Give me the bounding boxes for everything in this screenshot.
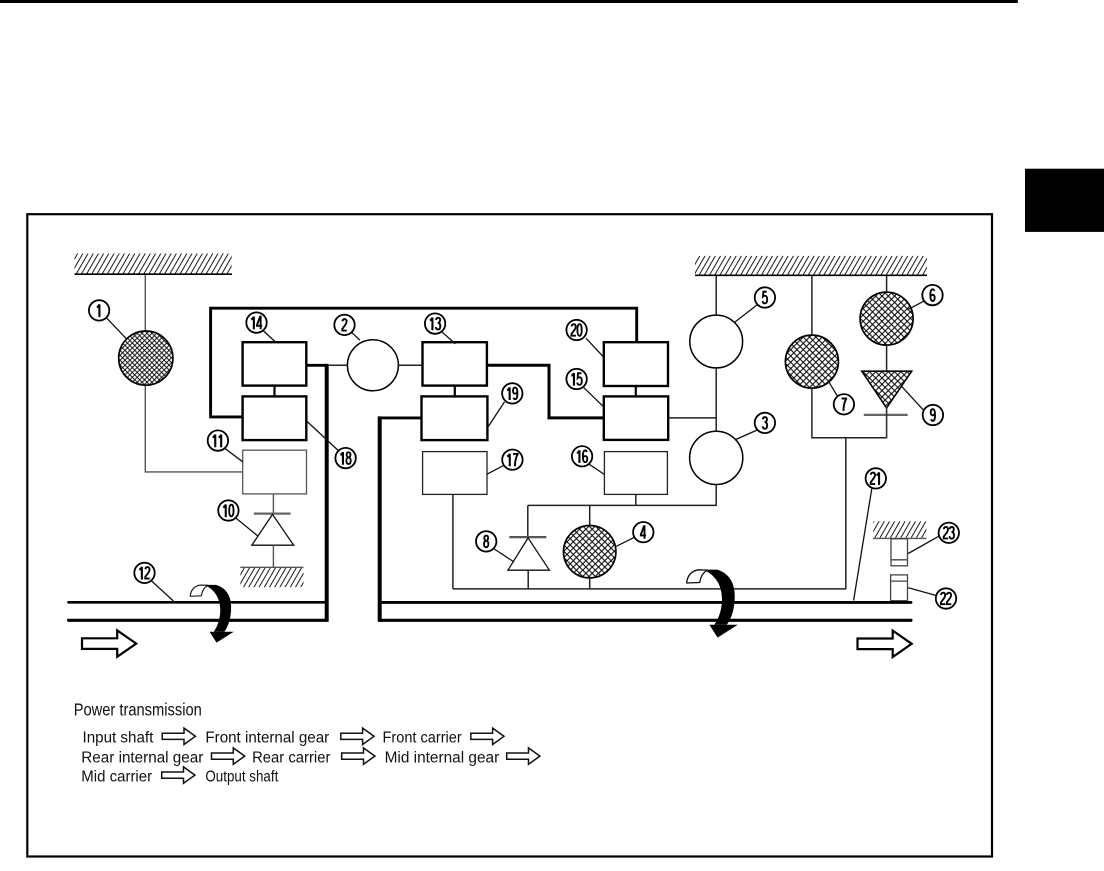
flow arrow 3a <box>162 767 195 783</box>
label 8 <box>476 531 514 562</box>
one-way clutch 9 lower stem <box>886 407 888 439</box>
label 5 <box>734 287 775 322</box>
flow line 3 <box>81 768 279 785</box>
wire box16 drop <box>635 494 637 505</box>
brake drum 7 (crosshatched) <box>785 335 838 388</box>
thick stub shaft wall to box19 <box>380 416 422 419</box>
thick S-link box13 to box15 <box>487 365 605 418</box>
wire horizontal bus y588.9 <box>453 588 846 590</box>
label 13 <box>425 313 456 344</box>
label 2 <box>334 315 360 340</box>
flow line 1 <box>83 730 462 747</box>
svg-text:Rear carrier: Rear carrier <box>252 749 330 766</box>
plain gear 5 <box>690 315 743 368</box>
flow arrow 1b <box>341 728 374 744</box>
link 14-18 <box>273 386 275 397</box>
one-way clutch 8 triangle <box>508 538 550 570</box>
clutch box 11 (inactive) <box>243 450 307 494</box>
wire ceiling to brake 7 <box>811 276 813 335</box>
thick stub box14 to shaft wall <box>306 364 327 367</box>
wire clutch4 upper stem <box>589 505 591 525</box>
svg-text:Input shaft: Input shaft <box>83 730 154 747</box>
label 12 <box>134 563 173 601</box>
shaft wall left (thick vertical) <box>325 364 329 622</box>
label 17 <box>487 450 523 475</box>
gearbox 14 <box>243 342 307 385</box>
gearbox 19 <box>422 396 488 440</box>
flow arrow 1a <box>162 728 195 744</box>
one-way clutch 8 lower stem <box>527 570 529 589</box>
wire gear 2 to box 13 <box>398 364 422 366</box>
flow arrow 1c <box>471 728 504 744</box>
flow arrow 2c <box>507 748 540 764</box>
ground hatch under 10 <box>240 567 303 587</box>
label 3 <box>735 413 775 440</box>
link 20-15 <box>635 386 637 396</box>
ceiling hatch left <box>75 254 233 275</box>
label 21 <box>854 468 886 600</box>
one-way clutch 8 bar <box>509 536 546 538</box>
wire clutch4 lower stem <box>589 578 591 589</box>
label 16 <box>572 446 605 474</box>
gearbox 18 <box>243 396 307 440</box>
svg-text:Power transmission: Power transmission <box>74 700 202 720</box>
small ceiling hatch (speed sensor mount) <box>873 521 926 538</box>
output shaft top line <box>380 601 911 604</box>
label 19 <box>487 383 522 428</box>
flow arrow 2b <box>342 748 375 764</box>
input shaft top line <box>69 601 327 604</box>
sensor 23 <box>891 539 908 566</box>
clutch drum 4 (crosshatched) <box>564 526 616 578</box>
flow line 2 <box>81 749 499 766</box>
svg-text:Mid carrier: Mid carrier <box>81 768 152 785</box>
label 1 <box>89 300 126 338</box>
wire gear 5 to gear 3 <box>715 368 717 432</box>
plain gear 3 <box>690 431 743 484</box>
rotation arrow right <box>687 570 738 638</box>
clutch box 17 <box>423 452 487 495</box>
one-way clutch 10: stem from box 11 <box>272 494 274 514</box>
label 6 <box>908 285 943 310</box>
gearbox 13 <box>423 342 487 385</box>
input flow arrow <box>82 630 136 656</box>
output flow arrow <box>858 631 912 657</box>
gearbox 15 <box>604 396 668 440</box>
label 10 <box>218 500 257 536</box>
svg-text:Front internal gear: Front internal gear <box>205 730 329 747</box>
svg-text:Output shaft: Output shaft <box>205 768 278 785</box>
wire brake 6 to one-way clutch 9 <box>886 345 888 371</box>
one-way clutch 8 upper stem <box>527 505 529 537</box>
label 22 <box>908 588 956 609</box>
wire ceiling to brake B1 and down to node 11 <box>145 275 242 472</box>
clutch box 16 <box>604 452 667 495</box>
brake drum 1 (crosshatched) <box>119 331 173 385</box>
wire box15 to gear column <box>668 417 716 419</box>
thick bus: top rail and left drop to box 18 <box>211 308 637 417</box>
sensor gear 22 <box>891 575 908 601</box>
wire brake 7 down <box>811 388 813 439</box>
gearbox 20 <box>604 342 668 386</box>
wire box17 drop <box>452 494 454 589</box>
input shaft bottom line <box>69 619 327 622</box>
label 7 <box>829 382 854 415</box>
rotation arrow left <box>190 585 234 643</box>
label 18 <box>307 421 356 468</box>
page top rule <box>0 0 1018 3</box>
output shaft bottom line <box>380 619 911 622</box>
wire horizontal bus y505 <box>528 504 717 506</box>
ceiling hatch right <box>695 256 927 275</box>
one-way clutch 9 triangle (crosshatched) <box>862 371 912 408</box>
label 14 <box>246 312 275 342</box>
wire gear 3 down to bus 505 <box>715 485 717 506</box>
link 13-19 <box>454 386 456 397</box>
one-way clutch 10 lower stem <box>272 545 274 567</box>
wire wall to gear 2 <box>328 364 347 366</box>
svg-text:Mid internal gear: Mid internal gear <box>385 749 500 766</box>
section index tab <box>1025 169 1104 232</box>
label 9 <box>902 386 944 425</box>
one-way clutch 10 bar <box>254 512 291 514</box>
label 4 <box>616 522 653 546</box>
label 15 <box>566 369 603 407</box>
label 20 <box>566 320 603 357</box>
svg-text:Rear internal gear: Rear internal gear <box>81 749 203 766</box>
one-way clutch 10 triangle <box>252 514 294 545</box>
svg-text:Front carrier: Front carrier <box>383 730 462 747</box>
diagram frame <box>27 214 992 856</box>
brake drum 6 (crosshatched) <box>860 292 913 345</box>
label 23 <box>908 523 959 554</box>
wire drop to output line <box>845 438 847 589</box>
wire ceiling to brake 6 <box>886 276 888 292</box>
wire junction y437.8 <box>812 437 887 439</box>
label 11 <box>208 430 243 461</box>
flow arrow 2a <box>212 748 245 764</box>
one-way clutch 9 bar <box>864 414 908 416</box>
plain gear 2 <box>347 340 398 391</box>
shaft wall right (thick vertical) <box>378 416 382 621</box>
wire ceiling to gear 5 <box>715 276 717 315</box>
